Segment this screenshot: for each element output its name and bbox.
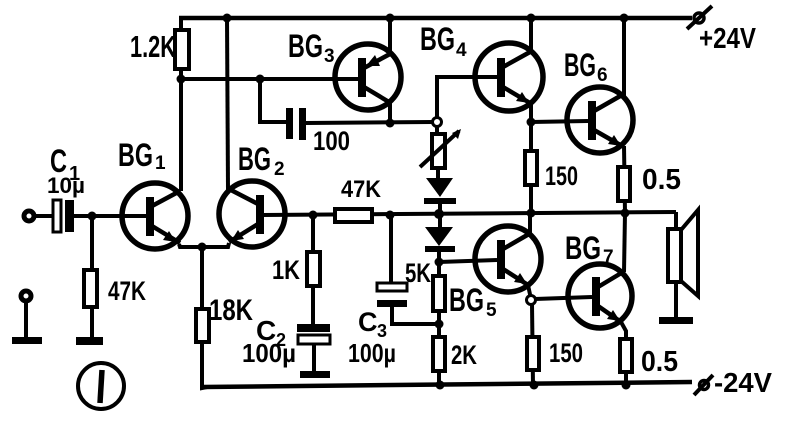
capacitor 100 [286, 108, 306, 140]
label 150 lower [549, 338, 583, 368]
wire open circle down to trimmer [435, 127, 439, 136]
speaker [668, 210, 698, 296]
node main line right [621, 209, 630, 218]
label +24V [699, 23, 757, 55]
wire C1 to BG1 base [74, 214, 146, 218]
svg-text:BG: BG [420, 21, 455, 57]
label 100u C3 [348, 338, 396, 368]
node main line diode chain [434, 209, 444, 219]
svg-text:47K: 47K [341, 176, 382, 203]
svg-text:C: C [358, 307, 378, 337]
terminal +24V [687, 6, 712, 29]
node BG6 rail [620, 14, 629, 23]
label BG1 [118, 137, 166, 174]
wire BG5 collector up [528, 213, 532, 234]
transistor BG3 [335, 44, 401, 110]
node 5K bottom [435, 320, 444, 329]
label BG5 [449, 282, 497, 321]
label BG3 [288, 28, 335, 67]
label BG4 [420, 21, 467, 61]
label 18K [209, 294, 253, 327]
node 2K rail [436, 381, 445, 390]
node 1K tap [309, 211, 318, 220]
wire main signal line BG2 base to speaker [263, 212, 676, 215]
label 1K [272, 255, 300, 285]
wire BG4 emitter down through 150 to main line [529, 103, 533, 214]
wire bottom -24V rail [203, 382, 692, 387]
svg-text:100: 100 [313, 126, 350, 156]
wire node to BG3 base [181, 77, 359, 81]
svg-text:BG: BG [118, 137, 153, 173]
transistor BG1 [122, 183, 188, 249]
node BG3 collector [386, 119, 395, 128]
node BG2 collector rail [223, 14, 232, 23]
label BG6 [564, 47, 608, 86]
svg-text:18K: 18K [209, 294, 253, 327]
resistor 1.2K [175, 18, 189, 79]
label -24V [714, 367, 772, 398]
wire BG7 collector up [624, 213, 625, 272]
label 10u [47, 173, 85, 198]
label 100 [313, 126, 350, 156]
label C2 [256, 315, 286, 350]
wire BG3 emitter to rail [388, 18, 392, 55]
label 0.5 upper [642, 164, 681, 196]
node BG3 rail [386, 14, 395, 23]
wire BG7 emitter down through 0.5 to rail [621, 322, 626, 385]
wire node to BG4 base feed [437, 77, 497, 118]
wire BG6 emitter down through 0.5 to main line [624, 146, 625, 213]
svg-text:1: 1 [155, 153, 166, 174]
wire 2K to rail [437, 371, 441, 386]
label 1.2K [130, 29, 176, 64]
junction open circle bias [433, 118, 442, 127]
transistor BG4 [475, 43, 543, 111]
wire BG5 emitter to node [528, 285, 531, 299]
wire C3 branch down [389, 215, 393, 284]
label 47K input [108, 276, 146, 306]
svg-text:10µ: 10µ [47, 173, 85, 198]
wire 5K to 2K [437, 311, 441, 337]
wire BG2 collector up [227, 18, 228, 190]
transistor BG6 [567, 87, 633, 153]
diode D2 [425, 227, 455, 252]
resistor 0.5 upper [618, 167, 630, 201]
wire down to cap 100 [260, 79, 286, 122]
transistor BG7 [568, 264, 632, 328]
label 100u C2 [242, 338, 296, 368]
trimmer resistor [420, 129, 461, 168]
svg-text:2K: 2K [451, 340, 477, 370]
node input junction [88, 212, 97, 221]
wire node down through 150 to rail [532, 304, 533, 385]
transistor BG5 [475, 226, 541, 292]
terminal input [24, 211, 34, 221]
svg-text:BG: BG [449, 282, 484, 318]
ground speaker [659, 317, 693, 324]
ground 47K [76, 337, 103, 345]
svg-text:BG: BG [238, 141, 271, 177]
svg-text:BG: BG [565, 230, 601, 266]
label 47K feedback [341, 176, 382, 203]
wire C2 to ground bar [312, 344, 316, 371]
resistor 47K feedback [335, 209, 372, 222]
wire to BG6 base [531, 121, 588, 122]
svg-text:-24V: -24V [714, 367, 772, 398]
wire +24V top rail [179, 16, 692, 21]
terminal -24V [694, 375, 713, 395]
svg-text:100µ: 100µ [348, 338, 396, 368]
wire BG3 collector down [388, 102, 392, 123]
svg-text:2: 2 [274, 159, 285, 180]
svg-text:150: 150 [545, 161, 578, 191]
wire BG6 collector to rail [622, 18, 626, 96]
label 5K [405, 258, 431, 288]
resistor 2K [433, 337, 445, 371]
svg-text:47K: 47K [108, 276, 146, 306]
label 0.5 lower [641, 346, 678, 378]
svg-text:100µ: 100µ [242, 338, 296, 368]
junction open circle BG5 emitter [527, 296, 536, 305]
svg-text:0.5: 0.5 [641, 346, 678, 378]
label C3 [358, 307, 387, 341]
diode D1 [424, 178, 456, 204]
node BG4 rail [527, 14, 536, 23]
label 2K [451, 340, 477, 370]
svg-text:1.2K: 1.2K [130, 29, 176, 64]
node branch to cap 100 [256, 75, 265, 84]
node 150 rail [530, 381, 539, 390]
wire speaker to ground [674, 282, 678, 317]
svg-text:1K: 1K [272, 255, 300, 285]
wire BG1 collector up [179, 79, 183, 191]
label BG2 [238, 141, 285, 180]
node 1.2K bottom [177, 75, 186, 84]
wire D2 to 5K [437, 252, 441, 276]
wire C3 bottom to 5K node [392, 307, 439, 324]
resistor 0.5 lower [620, 339, 632, 372]
node BG4 emitter [527, 118, 536, 127]
ground C2 [300, 371, 330, 378]
resistor 150 lower [527, 337, 539, 370]
svg-text:3: 3 [324, 46, 335, 67]
figure number circled 1 [78, 363, 124, 409]
svg-text:5K: 5K [405, 258, 431, 288]
svg-text:BG: BG [288, 28, 323, 64]
node emitters [198, 243, 207, 252]
wire to BG7 base [535, 297, 592, 299]
resistor 1K [307, 252, 320, 286]
svg-text:0.5: 0.5 [642, 164, 681, 196]
terminal aux ground [21, 291, 31, 338]
svg-text:150: 150 [549, 338, 583, 368]
resistor 47K input [84, 270, 97, 307]
capacitor C2 [297, 324, 330, 344]
svg-text:7: 7 [603, 247, 614, 268]
wire D1 to D2 [438, 204, 442, 228]
node main line output mid [527, 209, 536, 218]
wire emitters joint [179, 243, 229, 247]
resistor 5K [433, 276, 445, 311]
svg-text:4: 4 [456, 40, 467, 61]
capacitor C3 [377, 283, 407, 307]
svg-text:BG: BG [564, 47, 596, 83]
capacitor C1 [53, 200, 74, 232]
wire trimmer to diode D1 [436, 168, 440, 180]
svg-text:+24V: +24V [699, 23, 757, 55]
wire junction down to 47K [90, 216, 94, 338]
label BG7 [565, 230, 614, 268]
svg-text:6: 6 [597, 65, 608, 86]
wire to BG5 base [439, 260, 497, 262]
node 0.5 rail [622, 381, 631, 390]
node BG5 base tap [435, 258, 444, 267]
wire speaker feed [674, 212, 678, 229]
resistor 18K [196, 309, 209, 342]
label C1 [50, 143, 80, 185]
wire node down to 18K and rail [202, 247, 207, 388]
wire BG4 collector to rail [529, 18, 533, 53]
transistor BG2 [219, 181, 285, 247]
wire cap 100 to BG3 collector node [306, 122, 433, 123]
wire input to C1 [34, 214, 52, 218]
node C3 tap [386, 211, 395, 220]
wire 1K branch down to C2 [311, 215, 315, 324]
label 150 upper [545, 161, 578, 191]
ground aux terminal [12, 337, 42, 344]
resistor 150 upper [525, 151, 537, 185]
svg-text:5: 5 [486, 300, 497, 321]
